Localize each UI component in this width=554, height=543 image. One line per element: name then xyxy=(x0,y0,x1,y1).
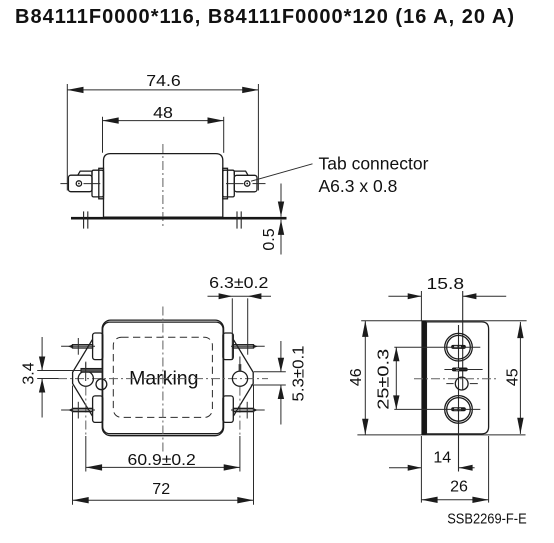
svg-text:0.5: 0.5 xyxy=(261,228,278,250)
break mark right xyxy=(236,211,238,228)
svg-text:60.9±0.2: 60.9±0.2 xyxy=(128,452,196,469)
svg-text:26: 26 xyxy=(450,479,468,496)
marking area dashed xyxy=(113,337,212,417)
svg-text:SSB2269-F-E: SSB2269-F-E xyxy=(447,511,527,527)
dimension 0.5 xyxy=(280,184,282,217)
svg-text:5.3±0.1: 5.3±0.1 xyxy=(291,345,308,401)
svg-text:48: 48 xyxy=(153,105,173,122)
dimension 48 xyxy=(102,117,104,153)
filter body (side view) xyxy=(426,322,488,434)
dimension 74.6 xyxy=(66,84,68,191)
mounting flange left xyxy=(73,340,93,417)
dimension 45 xyxy=(519,322,521,434)
mounting flange right xyxy=(233,340,253,417)
svg-text:45: 45 xyxy=(505,368,522,386)
left tab notch xyxy=(78,171,92,175)
right tab housing xyxy=(223,170,235,197)
baseplate flange (edge-on) xyxy=(71,217,287,220)
case outer (front view) xyxy=(102,320,223,436)
bottom terminal slot xyxy=(451,407,466,411)
dimension 14 xyxy=(420,436,422,503)
left tab hole xyxy=(76,181,81,186)
hole centerline right xyxy=(239,357,241,365)
pin top-right xyxy=(231,345,265,347)
bottom extension line xyxy=(357,434,525,436)
top terminal circle xyxy=(445,333,473,361)
terminal housing bump bottom-left xyxy=(93,396,103,423)
right tab connector blade xyxy=(234,175,257,192)
horizontal centerline xyxy=(58,378,268,380)
left tab connector blade xyxy=(68,175,92,192)
svg-text:B84111F0000*116, B84111F0000*1: B84111F0000*116, B84111F0000*120 (16 A, … xyxy=(15,6,514,28)
terminal housing bump top-left xyxy=(93,333,103,360)
filter body (top view) xyxy=(104,154,223,218)
break mark left xyxy=(83,211,85,228)
top terminal slot xyxy=(451,345,466,349)
svg-text:25±0.3: 25±0.3 xyxy=(375,349,392,410)
extension lines for 25 dim xyxy=(394,346,427,348)
dimension 3.4 xyxy=(41,337,43,371)
dimension 15.8 xyxy=(420,291,422,321)
svg-text:46: 46 xyxy=(348,368,365,386)
right tab centerline stubs xyxy=(226,183,244,185)
dimension 72 xyxy=(72,386,74,505)
middle ground pin left xyxy=(81,369,102,373)
right tab notch xyxy=(234,171,248,175)
terminal housing bump top-right xyxy=(223,333,233,360)
middle ground pin right (end-on) xyxy=(239,364,242,372)
svg-text:72: 72 xyxy=(152,481,170,498)
dimension 5.3±0.1 xyxy=(280,341,282,372)
ground tab (end-on) xyxy=(452,368,468,372)
small hole circle xyxy=(455,377,468,390)
centerline (top view vertical) xyxy=(162,144,164,228)
svg-text:6.3±0.2: 6.3±0.2 xyxy=(209,275,268,292)
top extension line xyxy=(361,320,526,322)
bottom terminal circle xyxy=(445,396,473,424)
case seam inner xyxy=(103,322,223,434)
mounting plate (edge-on) xyxy=(421,321,426,435)
pin top-left xyxy=(61,345,95,347)
svg-text:14: 14 xyxy=(433,449,451,466)
dimension 60.9±0.2 xyxy=(86,466,240,468)
svg-text:Tab connector: Tab connector xyxy=(319,154,429,174)
dimension 6.3±0.2 xyxy=(231,298,233,360)
svg-text:15.8: 15.8 xyxy=(427,276,465,293)
dimension 26 xyxy=(488,436,490,503)
dimension 25±0.3 xyxy=(395,347,397,409)
flange hole right xyxy=(232,371,247,386)
flange hole left xyxy=(78,371,93,386)
hole centerline left xyxy=(85,362,87,372)
svg-text:A6.3 x 0.8: A6.3 x 0.8 xyxy=(319,176,398,196)
left tab centerline stubs xyxy=(60,183,68,185)
svg-text:74.6: 74.6 xyxy=(146,73,181,90)
leader line to tab xyxy=(251,164,313,181)
pin bottom-left xyxy=(61,409,95,411)
svg-text:3.4: 3.4 xyxy=(21,362,38,384)
pin bottom-right xyxy=(231,409,265,411)
dimension 46 xyxy=(364,321,366,435)
vertical centerline xyxy=(162,307,164,454)
terminal centerline vertical xyxy=(458,325,460,472)
terminal housing bump bottom-right xyxy=(223,396,233,423)
horizontal centerline (side view) xyxy=(414,378,498,380)
left tab housing xyxy=(92,170,104,197)
right tab hole xyxy=(245,181,250,186)
small circle left xyxy=(96,379,107,390)
